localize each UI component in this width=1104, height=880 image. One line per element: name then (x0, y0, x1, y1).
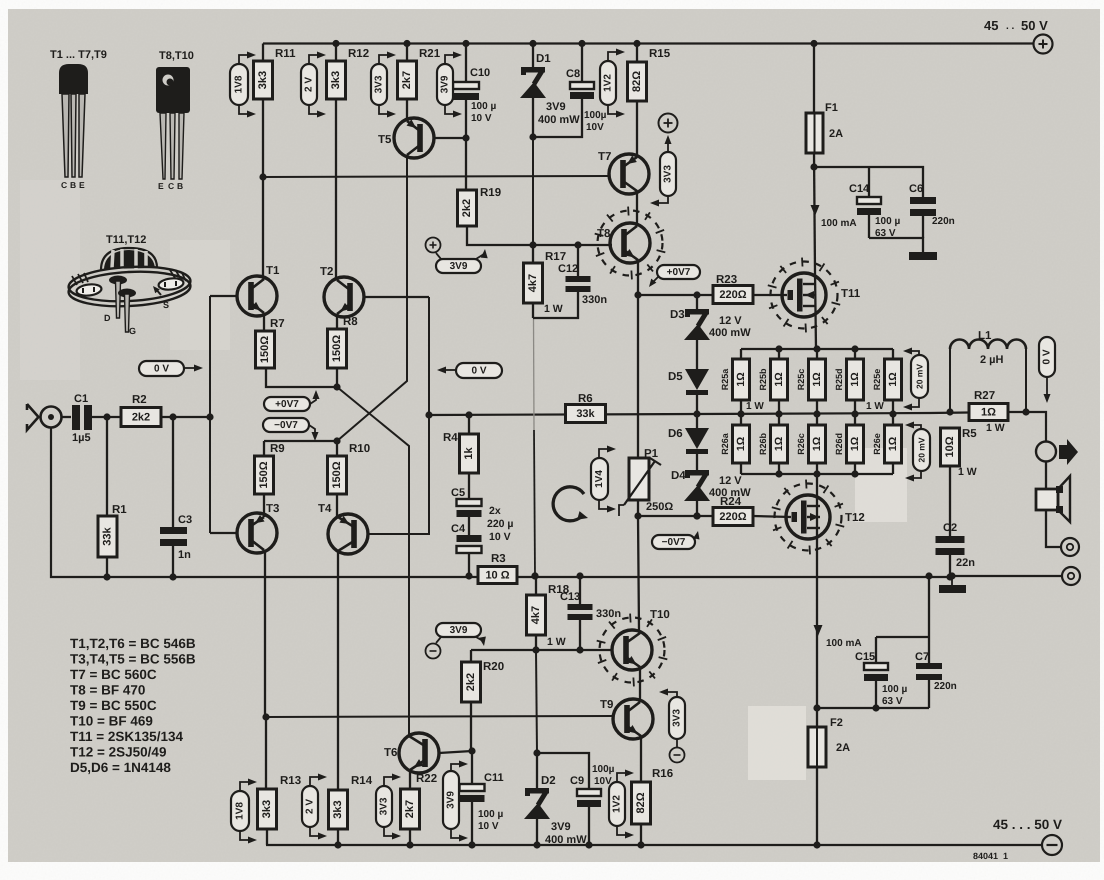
svg-text:10V: 10V (594, 776, 612, 787)
capacitor C7 220n (915, 637, 957, 708)
capacitor C10 100u (453, 40, 496, 124)
wire T1T3 base line (209, 296, 211, 533)
svg-text:100 µ: 100 µ (471, 101, 496, 112)
svg-text:4k7: 4k7 (530, 606, 542, 624)
voltage -0V7 at T12 (652, 530, 701, 549)
svg-text:R1: R1 (112, 504, 127, 516)
node F2 top (813, 704, 820, 711)
svg-text:R16: R16 (652, 768, 673, 780)
svg-text:B: B (177, 181, 183, 191)
voltage 0V mid (437, 363, 502, 378)
resistor R16 82 (632, 736, 674, 849)
svg-text:1 W: 1 W (746, 401, 764, 412)
voltage 1V8 bottom (231, 779, 257, 844)
svg-text:250Ω: 250Ω (646, 501, 673, 513)
svg-text:220n: 220n (932, 216, 955, 227)
package TO-3 T11 T12 drawing (68, 234, 192, 336)
svg-text:2 V: 2 V (305, 799, 316, 814)
svg-text:R25a: R25a (720, 368, 730, 391)
svg-text:3V9: 3V9 (440, 75, 451, 93)
resistor R2 2k2 (121, 394, 161, 427)
resistor R25d 1R (834, 349, 864, 418)
wire T7 base line (263, 176, 610, 177)
diode D6 1N4148 (668, 414, 709, 454)
fuse F1 2A (806, 102, 843, 153)
svg-text:R25e: R25e (872, 369, 882, 391)
svg-text:C: C (168, 181, 174, 191)
resistor R26a 1R (720, 414, 750, 474)
svg-text:E: E (158, 181, 164, 191)
svg-text:C9: C9 (570, 775, 584, 787)
svg-text:150Ω: 150Ω (259, 336, 271, 363)
svg-text:C5: C5 (451, 487, 465, 499)
resistor R1 33k (98, 417, 127, 581)
svg-text:1Ω: 1Ω (773, 372, 785, 386)
wire T2T4 base to rail (368, 297, 433, 534)
wire T5 collector to R9R10 node (337, 157, 407, 441)
svg-text:100µ: 100µ (584, 110, 607, 121)
wire T9 base line (266, 716, 614, 717)
diode D5 1N4148 (668, 369, 709, 395)
svg-text:3V3: 3V3 (379, 797, 390, 815)
svg-text:T8: T8 (597, 228, 611, 240)
svg-text:10 V: 10 V (471, 113, 492, 124)
svg-text:R3: R3 (491, 553, 506, 565)
wire F2 to -rail (813, 767, 820, 849)
svg-text:2 V: 2 V (304, 77, 315, 92)
svg-text:E: E (79, 180, 85, 190)
transistor T10 with case ring (597, 609, 670, 686)
label 45 50 V top (984, 18, 1048, 33)
svg-text:R15: R15 (649, 48, 671, 60)
voltage 3V9 bottom-left (426, 623, 488, 659)
svg-text:2 µH: 2 µH (980, 354, 1004, 366)
fuse F2 2A (808, 708, 850, 767)
svg-text:1V8: 1V8 (235, 802, 246, 820)
svg-text:220Ω: 220Ω (719, 289, 746, 301)
svg-text:R25b: R25b (758, 368, 768, 391)
svg-text:100µ: 100µ (592, 764, 615, 775)
parts list (70, 636, 196, 775)
svg-text:C12: C12 (558, 263, 578, 275)
speaker LS (1036, 476, 1070, 522)
wire D2-C9 top (537, 753, 589, 789)
chassis bar bottom (939, 572, 966, 593)
resistor R3 10R (478, 553, 517, 584)
svg-text:33k: 33k (102, 526, 114, 545)
svg-text:R22: R22 (416, 773, 437, 785)
svg-text:T1: T1 (266, 265, 280, 277)
wire P1 to T10 collector (634, 500, 641, 631)
resistor R26e 1R (872, 414, 902, 474)
svg-text:R13: R13 (280, 775, 301, 787)
svg-text:100 mA: 100 mA (821, 218, 857, 229)
wire D5 to output rail (693, 395, 700, 418)
wire T10 to T9 (639, 667, 641, 700)
terminal 0 lower (1062, 567, 1080, 585)
svg-text:T3: T3 (266, 503, 279, 515)
svg-text:T7: T7 (598, 151, 611, 163)
svg-text:T11,T12: T11,T12 (106, 234, 146, 246)
svg-text:R7: R7 (270, 318, 285, 330)
terminal - supply 45-50V (1042, 835, 1062, 855)
wire T7 to T8 (636, 191, 638, 224)
resistor R18 4k7 (527, 576, 570, 650)
resistor R25e 1R (872, 349, 902, 418)
svg-text:1 W: 1 W (866, 401, 884, 412)
resistor R5 10R (941, 428, 978, 478)
svg-text:C13: C13 (560, 591, 580, 603)
terminal output arrow (1036, 439, 1078, 465)
voltage +0V7 at T8 (646, 265, 700, 289)
svg-text:12 V: 12 V (719, 475, 742, 487)
wire D3-D5 (696, 338, 698, 369)
svg-text:T5: T5 (378, 134, 392, 146)
input connector J1 (27, 404, 62, 430)
wire R8 bottom (336, 368, 338, 387)
svg-text:150Ω: 150Ω (331, 461, 343, 488)
transistor T9 (600, 699, 653, 739)
transistor T8 with case ring (595, 207, 666, 280)
resistor R24 220 (713, 496, 753, 526)
svg-text:100 µ: 100 µ (478, 809, 503, 820)
wire T10 base line (471, 646, 613, 653)
wire D3 top stub (696, 295, 698, 309)
resistor R8 150 (328, 314, 359, 368)
capacitor C9 100u (570, 764, 615, 849)
wire R2 to node (161, 413, 214, 420)
resistor R20 2k2 (462, 650, 505, 751)
terminal + supply 45-50V (1034, 35, 1053, 54)
node T3-R13-T9base (262, 713, 269, 720)
chassis bar top (909, 252, 937, 260)
wire output rail (429, 412, 1046, 441)
voltage 1V2 top (600, 49, 625, 118)
node D2-C9 (533, 749, 540, 756)
wire bottom -supply rail (266, 844, 1041, 846)
voltage 3V3 top (371, 52, 396, 118)
svg-text:T8,T10: T8,T10 (159, 50, 194, 62)
wire R25 top bus (741, 345, 893, 352)
svg-text:1Ω: 1Ω (811, 437, 823, 451)
svg-text:2k2: 2k2 (465, 673, 477, 691)
svg-text:2A: 2A (829, 128, 843, 140)
resistor R9 150 (255, 441, 285, 517)
wire output to speaker (1045, 462, 1047, 490)
wire C15C7 bottom to F2 (817, 704, 929, 711)
wire input to C1 (62, 416, 72, 418)
svg-text:1Ω: 1Ω (981, 407, 996, 419)
svg-text:C6: C6 (909, 183, 923, 195)
svg-text:D3: D3 (670, 309, 685, 321)
wire R11 to T1 collector (259, 99, 266, 277)
resistor R22 2k7 (401, 770, 438, 849)
wire C10 to T5 base (462, 100, 469, 190)
svg-text:3k3: 3k3 (332, 800, 344, 818)
svg-text:R19: R19 (480, 187, 501, 199)
svg-text:T12 = 2SJ50/49: T12 = 2SJ50/49 (70, 745, 166, 760)
svg-text:T11 = 2SK135/134: T11 = 2SK135/134 (70, 729, 183, 744)
resistor R26c 1R (796, 414, 826, 474)
svg-text:0 V: 0 V (154, 364, 169, 375)
svg-text:C10: C10 (470, 67, 490, 79)
svg-text:R26e: R26e (872, 433, 882, 455)
svg-text:D5: D5 (668, 371, 683, 383)
transistor T2 (320, 266, 429, 317)
svg-text:1Ω: 1Ω (811, 372, 823, 386)
svg-text:T7 = BC 560C: T7 = BC 560C (70, 667, 157, 682)
svg-text:2k7: 2k7 (404, 800, 416, 818)
svg-text:R26d: R26d (834, 433, 844, 455)
preset P1 250R (619, 448, 673, 516)
svg-text:R27: R27 (974, 390, 995, 402)
svg-text:1Ω: 1Ω (735, 437, 747, 451)
svg-text:63 V: 63 V (882, 696, 903, 707)
svg-text:D4: D4 (671, 470, 686, 482)
wire T11 channel (815, 273, 816, 349)
svg-text:R20: R20 (483, 661, 504, 673)
wire T12 channel down (816, 474, 818, 708)
svg-text:C11: C11 (484, 772, 504, 784)
svg-text:R4: R4 (443, 432, 458, 444)
svg-text:F2: F2 (830, 717, 843, 729)
wire top +supply rail (263, 42, 1043, 44)
wire R26 bottom bus (741, 470, 893, 477)
resistor R17 4k7 (524, 245, 567, 315)
svg-text:R26c: R26c (796, 433, 806, 455)
wire T3 emitter down (264, 550, 266, 717)
svg-text:T12: T12 (845, 512, 865, 524)
resistor R4 1k (443, 411, 479, 473)
svg-text:T4: T4 (318, 503, 332, 515)
zener D3 12V (670, 309, 751, 340)
label 45...50 V bottom (993, 817, 1062, 832)
resistor R14 3k3 (329, 775, 373, 849)
svg-text:10Ω: 10Ω (944, 436, 956, 457)
mosfet T12 2SJ50 (772, 480, 865, 555)
svg-text:R6: R6 (578, 393, 593, 405)
svg-text:2x: 2x (489, 505, 501, 517)
svg-text:3V9: 3V9 (450, 261, 468, 272)
svg-text:R2: R2 (132, 394, 147, 406)
label 1W R25a (746, 401, 764, 412)
wire R23 to T11 gate (753, 294, 787, 296)
svg-text:T11: T11 (841, 288, 861, 300)
wire T8 node down to P1 (637, 295, 639, 458)
svg-text:C: C (61, 180, 67, 190)
resistor R25b 1R (758, 349, 788, 418)
svg-text:C15: C15 (855, 651, 875, 663)
svg-text:33k: 33k (576, 408, 595, 420)
svg-text:G: G (129, 326, 136, 336)
svg-text:1Ω: 1Ω (887, 437, 899, 451)
svg-text:20 mV: 20 mV (915, 364, 925, 389)
svg-text:−0V7: −0V7 (274, 420, 298, 431)
svg-text:C1: C1 (74, 393, 88, 405)
capacitor C6 220n (869, 167, 955, 238)
svg-text:S: S (163, 300, 169, 310)
wire gate line T12 (638, 512, 713, 519)
svg-text:1 W: 1 W (544, 303, 563, 315)
capacitor C11 100u (460, 751, 504, 849)
capacitor C8 100u (566, 40, 607, 133)
svg-text:F1: F1 (825, 102, 838, 114)
svg-text:2k2: 2k2 (132, 412, 150, 424)
resistor R12 3k3 (327, 40, 370, 99)
svg-text:R25c: R25c (796, 369, 806, 391)
resistor R21 2k7 (398, 40, 441, 99)
rotation arrow P1 (553, 487, 589, 523)
transistor T6 (384, 733, 472, 773)
zener D2 3V9 (524, 753, 587, 849)
svg-text:1 W: 1 W (547, 636, 566, 648)
svg-text:3V3: 3V3 (374, 75, 385, 93)
resistor R26d 1R (834, 414, 864, 474)
svg-text:R21: R21 (419, 48, 441, 60)
wire T4 emitter down (337, 551, 339, 790)
svg-text:10V: 10V (586, 122, 604, 133)
svg-text:20 mV: 20 mV (917, 437, 927, 462)
resistor R6 33k (566, 393, 606, 423)
svg-text:R14: R14 (351, 775, 373, 787)
svg-text:400 mW: 400 mW (545, 834, 587, 846)
svg-text:C7: C7 (915, 651, 929, 663)
voltage 3V9 top-left (437, 52, 462, 118)
wire R17 down to ground rail (531, 303, 538, 580)
svg-text:R25d: R25d (834, 368, 844, 390)
wire C1 to R2 (92, 413, 121, 420)
voltage -0V7 left (263, 418, 319, 441)
voltage 3V3 at T7 (650, 135, 676, 207)
svg-text:C4: C4 (451, 523, 466, 535)
svg-text:3V9: 3V9 (450, 625, 468, 636)
svg-text:. .: . . (1006, 21, 1015, 32)
capacitor C13 330n (560, 576, 621, 650)
svg-text:100 µ: 100 µ (882, 684, 907, 695)
wire R15 to T7 (636, 101, 638, 156)
svg-text:R10: R10 (349, 443, 370, 455)
voltage 3V3 at T9 (659, 689, 685, 763)
node D1-C8 (529, 133, 536, 140)
svg-text:1 W: 1 W (958, 466, 977, 478)
transistor T4 (318, 503, 368, 554)
svg-text:3V9: 3V9 (446, 791, 457, 809)
svg-text:84041 1: 84041 1 (973, 851, 1008, 861)
svg-text:330n: 330n (596, 608, 621, 620)
package TO-126 T8 T10 drawing (156, 50, 194, 191)
svg-text:3k3: 3k3 (257, 71, 269, 89)
wire R9R10 node (264, 437, 341, 444)
capacitor C1 1u5 (72, 393, 92, 444)
voltage 1V8 top (230, 52, 256, 118)
wire +rail to F1 (810, 40, 817, 113)
wire C14-C6 bottom (869, 238, 923, 252)
wire D6-D4 (696, 454, 698, 470)
svg-text:3V3: 3V3 (663, 165, 674, 183)
resistor R25c 1R (796, 349, 826, 418)
wire R7 to X node (266, 368, 341, 391)
svg-text:50 V: 50 V (1021, 18, 1048, 33)
svg-text:C14: C14 (849, 183, 870, 195)
inductor L1 2uH (946, 330, 1029, 416)
svg-text:R26b: R26b (758, 432, 768, 455)
svg-text:100 µ: 100 µ (875, 216, 900, 227)
svg-text:T9: T9 (600, 699, 613, 711)
terminal plus ref T7 (659, 114, 678, 133)
svg-text:1µ5: 1µ5 (72, 432, 91, 444)
node ground-R3 junctions (465, 572, 583, 579)
voltage 0V output (1039, 337, 1055, 403)
svg-text:T3,T4,T5 = BC 556B: T3,T4,T5 = BC 556B (70, 652, 196, 667)
svg-text:T1,T2,T6 = BC 546B: T1,T2,T6 = BC 546B (70, 636, 196, 651)
svg-text:R8: R8 (343, 316, 358, 328)
capacitor C4 220u (451, 505, 514, 576)
terminal 0 upper (1046, 510, 1079, 556)
voltage 3V3 bottom (376, 774, 401, 840)
svg-text:R9: R9 (270, 443, 285, 455)
svg-text:B: B (70, 180, 76, 190)
voltage 0V left (139, 361, 203, 376)
transistor T3 (210, 503, 279, 553)
svg-text:R12: R12 (348, 48, 369, 60)
svg-text:10 Ω: 10 Ω (485, 570, 509, 582)
svg-text:C2: C2 (943, 522, 957, 534)
voltage 3V9 at C11 (443, 761, 468, 842)
voltage 20mV lower (905, 422, 930, 482)
light scan patches (20, 180, 907, 780)
svg-text:0 V: 0 V (471, 366, 486, 377)
current arrow 100mA top (811, 205, 857, 229)
svg-text:R24: R24 (720, 496, 742, 508)
voltage 1V4 (591, 446, 616, 513)
svg-text:1Ω: 1Ω (773, 437, 785, 451)
wire gate line T11 (638, 291, 713, 298)
svg-text:T1 ... T7,T9: T1 ... T7,T9 (50, 49, 107, 61)
svg-text:+0V7: +0V7 (275, 399, 299, 410)
svg-text:D6: D6 (668, 428, 683, 440)
svg-text:45 . . . 50 V: 45 . . . 50 V (993, 817, 1062, 832)
transistor T7 (598, 151, 649, 194)
svg-text:R17: R17 (545, 251, 566, 263)
label 1W R25e (866, 401, 884, 412)
svg-text:C3: C3 (178, 514, 192, 526)
svg-text:1V2: 1V2 (603, 74, 614, 92)
svg-text:22n: 22n (956, 557, 975, 569)
resistor R13 3k3 (258, 717, 302, 845)
resistor R26b 1R (758, 414, 788, 474)
wire D1-C8 bottom (533, 99, 582, 137)
svg-text:D2: D2 (541, 775, 556, 787)
svg-text:3k3: 3k3 (330, 71, 342, 89)
wire R21 to T5 (406, 99, 408, 120)
wire R12 to T2 (335, 99, 337, 279)
svg-text:82Ω: 82Ω (631, 71, 643, 92)
svg-text:10 V: 10 V (478, 821, 499, 832)
resistor R23 220 (713, 274, 753, 304)
resistor R7 150 (256, 313, 285, 368)
node T6 base (468, 747, 475, 754)
capacitor C14 100u 63V (814, 167, 900, 239)
wire D1 node down to R17 node (532, 137, 534, 245)
svg-text:D5,D6 = 1N4148: D5,D6 = 1N4148 (70, 760, 171, 775)
svg-text:+0V7: +0V7 (667, 267, 691, 278)
wire R18 node down to D2 (536, 650, 537, 753)
svg-text:150Ω: 150Ω (258, 461, 270, 488)
capacitor C12 330n (533, 245, 607, 318)
wire F1 down to T11 drain (810, 153, 817, 273)
svg-text:1k: 1k (463, 447, 475, 460)
svg-text:T9 = BC 550C: T9 = BC 550C (70, 698, 157, 713)
